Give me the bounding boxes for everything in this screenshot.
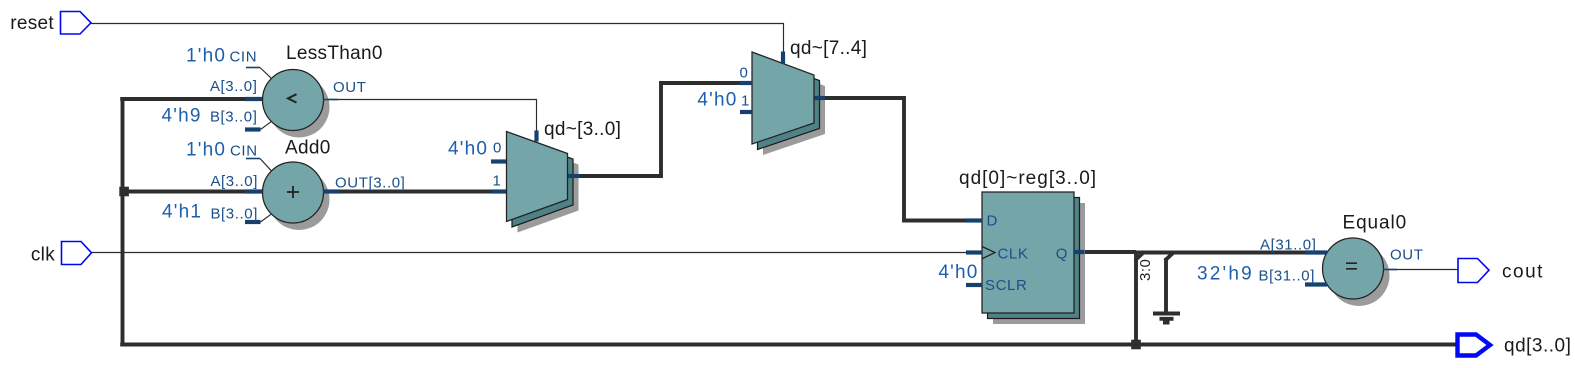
svg-text:32'h9: 32'h9 [1197, 264, 1254, 285]
svg-text:A[3..0]: A[3..0] [210, 78, 258, 95]
svg-text:OUT: OUT [333, 79, 366, 96]
svg-text:OUT[3..0]: OUT[3..0] [335, 175, 405, 192]
svg-text:4'h0: 4'h0 [448, 139, 488, 160]
svg-text:Add0: Add0 [285, 138, 331, 159]
svg-text:4'h0: 4'h0 [697, 90, 737, 111]
svg-text:CIN: CIN [230, 143, 258, 160]
svg-text:3:0: 3:0 [1137, 259, 1154, 281]
svg-text:qd~[7..4]: qd~[7..4] [790, 38, 867, 59]
svg-text:CIN: CIN [230, 49, 258, 66]
svg-text:1'h0: 1'h0 [186, 46, 226, 67]
svg-text:0: 0 [493, 140, 502, 157]
svg-text:LessThan0: LessThan0 [286, 43, 383, 64]
svg-text:D: D [987, 213, 998, 230]
svg-text:1'h0: 1'h0 [186, 140, 226, 161]
svg-text:B[3..0]: B[3..0] [210, 109, 258, 126]
svg-text:1: 1 [493, 173, 502, 190]
svg-text:qd[3..0]: qd[3..0] [1504, 336, 1571, 357]
svg-text:SCLR: SCLR [985, 277, 1027, 294]
svg-text:4'h9: 4'h9 [162, 106, 202, 127]
svg-text:4'h0: 4'h0 [938, 262, 978, 283]
svg-text:A[31..0]: A[31..0] [1260, 237, 1317, 254]
svg-text:4'h1: 4'h1 [162, 202, 202, 223]
svg-text:0: 0 [740, 65, 749, 82]
svg-text:B[3..0]: B[3..0] [210, 206, 258, 223]
svg-text:1: 1 [741, 93, 750, 110]
svg-text:clk: clk [31, 245, 55, 266]
svg-text:cout: cout [1502, 262, 1544, 283]
svg-text:Equal0: Equal0 [1343, 213, 1408, 234]
svg-text:B[31..0]: B[31..0] [1258, 268, 1315, 285]
svg-text:qd[0]~reg[3..0]: qd[0]~reg[3..0] [959, 168, 1097, 189]
svg-text:A[3..0]: A[3..0] [210, 173, 258, 190]
svg-text:qd~[3..0]: qd~[3..0] [544, 119, 621, 140]
svg-text:Q: Q [1056, 246, 1068, 263]
svg-text:CLK: CLK [998, 246, 1029, 263]
svg-text:OUT: OUT [1390, 247, 1423, 264]
svg-text:reset: reset [10, 13, 54, 34]
